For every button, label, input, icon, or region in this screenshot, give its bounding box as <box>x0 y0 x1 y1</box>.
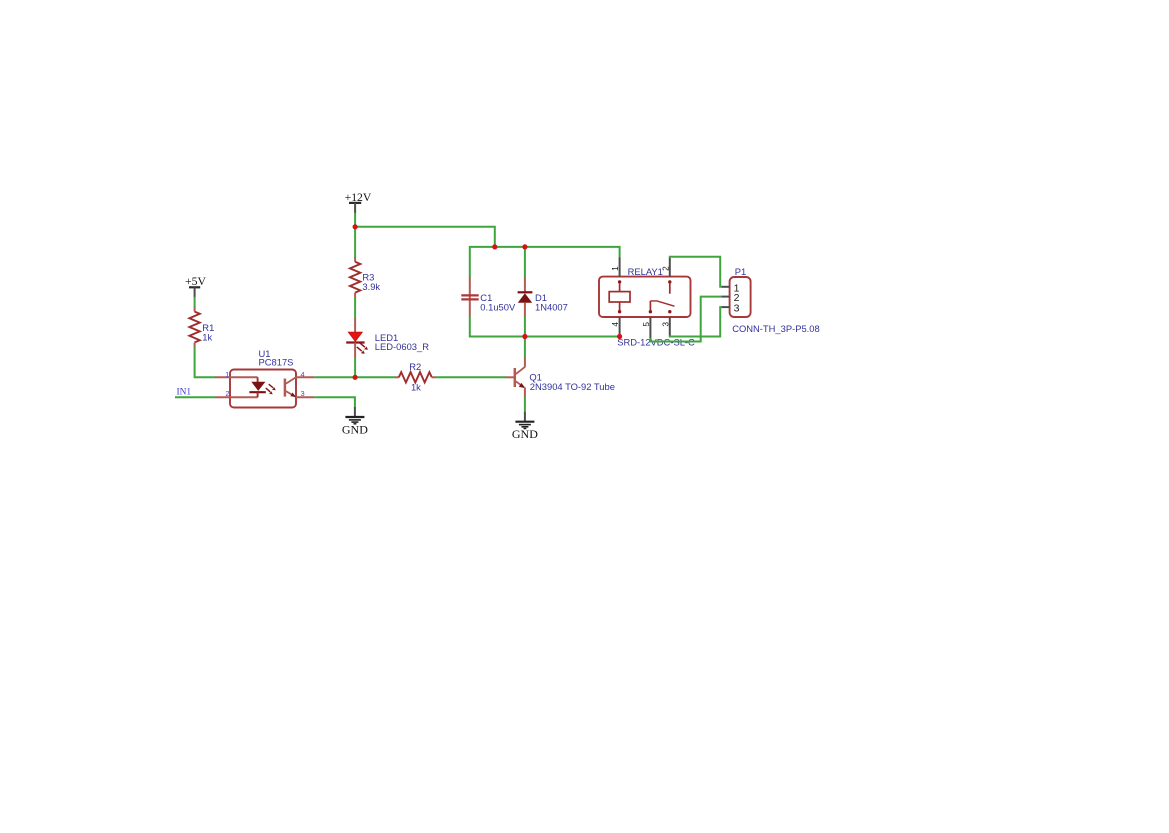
svg-text:IN1: IN1 <box>177 388 192 398</box>
pin 5 (RELAY1) <box>649 317 651 338</box>
wire LED1 to node A <box>354 357 356 377</box>
pin 3 (RELAY1) <box>669 317 671 336</box>
resistor R2 <box>395 372 435 382</box>
resistor R1 <box>189 307 199 347</box>
svg-text:3: 3 <box>660 322 670 327</box>
wire U1 pin3 to GND <box>314 397 355 407</box>
wire bottom rail <box>470 336 620 338</box>
pin 2 (RELAY1) <box>669 258 671 277</box>
resistor R3 <box>350 257 360 297</box>
wire relay pin3 to P1 pin3 <box>670 307 722 336</box>
transistor Q1 2N3904 <box>505 358 525 398</box>
ground GND (U1) <box>342 407 368 437</box>
junction top rail left <box>492 244 497 249</box>
wire D1 to bottom rail <box>524 316 526 337</box>
wire R1 to U1 pin1 <box>195 347 216 378</box>
wire R3 to LED1 <box>354 297 356 318</box>
svg-text:1: 1 <box>610 266 620 271</box>
svg-text:P1: P1 <box>735 266 746 277</box>
wire R2 to Q1 base <box>435 376 505 378</box>
junction top rail D1 <box>522 244 527 249</box>
svg-text:4: 4 <box>610 322 620 327</box>
pin 3 (P1) <box>722 306 730 308</box>
junction bottom rail relay pin4 <box>617 334 622 339</box>
svg-text:1N4007: 1N4007 <box>535 301 568 312</box>
svg-text:+5V: +5V <box>185 275 206 288</box>
wire top rail to D1 <box>524 246 526 278</box>
wire U1 pin4 to node A <box>314 376 395 378</box>
wire top rail to C1 <box>469 246 471 278</box>
pin 4 (RELAY1) <box>619 317 621 336</box>
wire bottom rail to Q1 collector <box>524 337 526 358</box>
svg-text:2N3904 TO-92 Tube: 2N3904 TO-92 Tube <box>530 381 615 392</box>
svg-text:1: 1 <box>225 370 229 379</box>
svg-text:GND: GND <box>342 423 368 437</box>
svg-text:3.9k: 3.9k <box>362 281 380 292</box>
wire relay pin2 to P1 pin1 <box>670 257 722 287</box>
op-amp U1 PC817S optocoupler <box>215 370 314 408</box>
svg-text:3: 3 <box>734 302 740 314</box>
pin 1 (P1) <box>722 286 730 288</box>
svg-text:CONN-TH_3P-P5.08: CONN-TH_3P-P5.08 <box>732 323 820 334</box>
ground GND (Q1) <box>512 412 538 441</box>
svg-text:PC817S: PC817S <box>259 357 294 368</box>
wire top rail <box>470 247 620 258</box>
wire +12V to R3 <box>354 213 356 258</box>
svg-text:0.1u50V: 0.1u50V <box>480 301 516 312</box>
junction node A <box>353 375 358 380</box>
svg-text:2: 2 <box>225 389 229 398</box>
svg-text:GND: GND <box>512 427 538 441</box>
junction bottom rail D1 <box>522 334 527 339</box>
wire C1 to bottom rail <box>469 316 471 337</box>
wire node B to top rail <box>355 227 495 248</box>
pin 2 (P1) <box>722 296 730 298</box>
svg-text:4: 4 <box>301 370 305 379</box>
relay RELAY1 <box>599 277 691 317</box>
diode D1 1N4007 <box>518 277 533 317</box>
wire relay pin5 to P1 pin2 <box>650 297 722 342</box>
svg-text:R2: R2 <box>409 361 421 372</box>
svg-text:LED-0603_R: LED-0603_R <box>375 341 429 352</box>
LED LED1 <box>346 318 368 358</box>
capacitor C1 <box>461 277 478 317</box>
svg-text:1k: 1k <box>411 381 421 392</box>
wire +5V to R1 <box>194 297 196 308</box>
connector P1 <box>730 277 751 317</box>
pin 1 (RELAY1) <box>619 257 621 276</box>
svg-text:5: 5 <box>641 322 651 327</box>
svg-text:3: 3 <box>301 389 305 398</box>
power symbol +12V <box>345 191 372 214</box>
svg-text:1k: 1k <box>202 332 212 343</box>
wire Q1 emitter to GND <box>524 397 526 412</box>
svg-text:RELAY1: RELAY1 <box>628 266 663 277</box>
junction node B (+12V rail) <box>353 224 358 229</box>
wire IN1 to U1 pin2 <box>175 396 216 398</box>
power symbol +5V <box>185 275 206 297</box>
